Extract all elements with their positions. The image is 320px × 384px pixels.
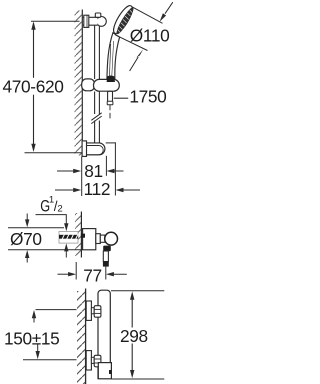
298 bottom extension — [111, 378, 164, 380]
spray face (hatched dark) — [115, 7, 135, 35]
outlet axis line — [105, 267, 107, 280]
rail (upper segment) — [95, 26, 100, 146]
dimension 77 — [58, 272, 127, 276]
svg-text:470-620: 470-620 — [3, 76, 64, 96]
svg-text:1: 1 — [49, 195, 54, 206]
top union nut — [94, 306, 101, 318]
face rim inner line — [111, 4, 130, 32]
top union ring — [91, 308, 94, 314]
dimension 112 — [55, 142, 140, 195]
handle knob — [105, 232, 118, 245]
dark piece under knob — [103, 246, 111, 252]
hose connector below holder — [108, 91, 113, 101]
extension jog from bracket to 112 line — [106, 142, 116, 144]
top wall mount arm — [83, 13, 106, 27]
leader + label 1750 — [114, 97, 128, 99]
head outline (capsule) — [110, 3, 135, 36]
shower head — [110, 3, 135, 36]
bottom union nut — [94, 355, 101, 367]
handle inner shade lines — [109, 44, 110, 78]
dimension Ø70 — [8, 214, 83, 263]
dimension 470-620 — [31, 21, 35, 152]
handle end in holder (dark) — [107, 76, 115, 83]
hose nut (dark) — [103, 261, 109, 266]
77 left extension — [75, 262, 77, 280]
extension line from head bottom tip — [115, 35, 147, 51]
dimension Ø110 — [115, 2, 173, 71]
top extension line 470-620 — [31, 20, 80, 22]
hand shower handle — [107, 33, 120, 80]
nipple between wall and escutcheon — [81, 234, 85, 238]
escutcheon Ø70 — [83, 229, 96, 250]
outlet tube — [103, 251, 108, 262]
bottom extension line 470-620 — [25, 152, 83, 154]
svg-text:2: 2 — [57, 203, 62, 214]
rail break symbol — [91, 113, 101, 124]
dimension 150±15 — [23, 310, 77, 360]
wall hatching (upper) — [75, 11, 82, 156]
union rings — [96, 234, 101, 244]
wall (middle) — [80, 212, 82, 258]
rail lower segment — [94, 92, 96, 115]
dimension 81 — [57, 156, 124, 176]
arrow from top-right corner — [165, 2, 173, 14]
svg-text:77: 77 — [83, 265, 102, 285]
svg-text:112: 112 — [84, 179, 111, 199]
wall (bottom) — [85, 289, 87, 384]
top S-union escutcheon — [86, 301, 91, 320]
bottom S-union escutcheon — [86, 351, 91, 370]
298 top extension — [111, 290, 164, 292]
bottom union ring — [91, 357, 94, 363]
G1/2 leader with arrows — [36, 215, 69, 258]
thermostat body bar — [98, 290, 110, 379]
arrow from below — [130, 57, 139, 71]
extension line from head top tip — [132, 7, 163, 24]
bottom outlet block — [98, 363, 111, 379]
slider holder — [82, 79, 120, 91]
hose line — [109, 105, 111, 119]
dimension 298 — [130, 291, 134, 378]
svg-text:Ø110: Ø110 — [130, 25, 170, 45]
svg-text:1750: 1750 — [129, 86, 166, 106]
wall (upper) — [81, 10, 84, 197]
svg-text:150±15: 150±15 — [4, 328, 59, 348]
bottom bracket — [82, 141, 105, 157]
threaded nipple in wall (G 1/2) — [59, 232, 78, 244]
svg-text:Ø70: Ø70 — [10, 229, 42, 249]
svg-text:298: 298 — [120, 326, 148, 346]
